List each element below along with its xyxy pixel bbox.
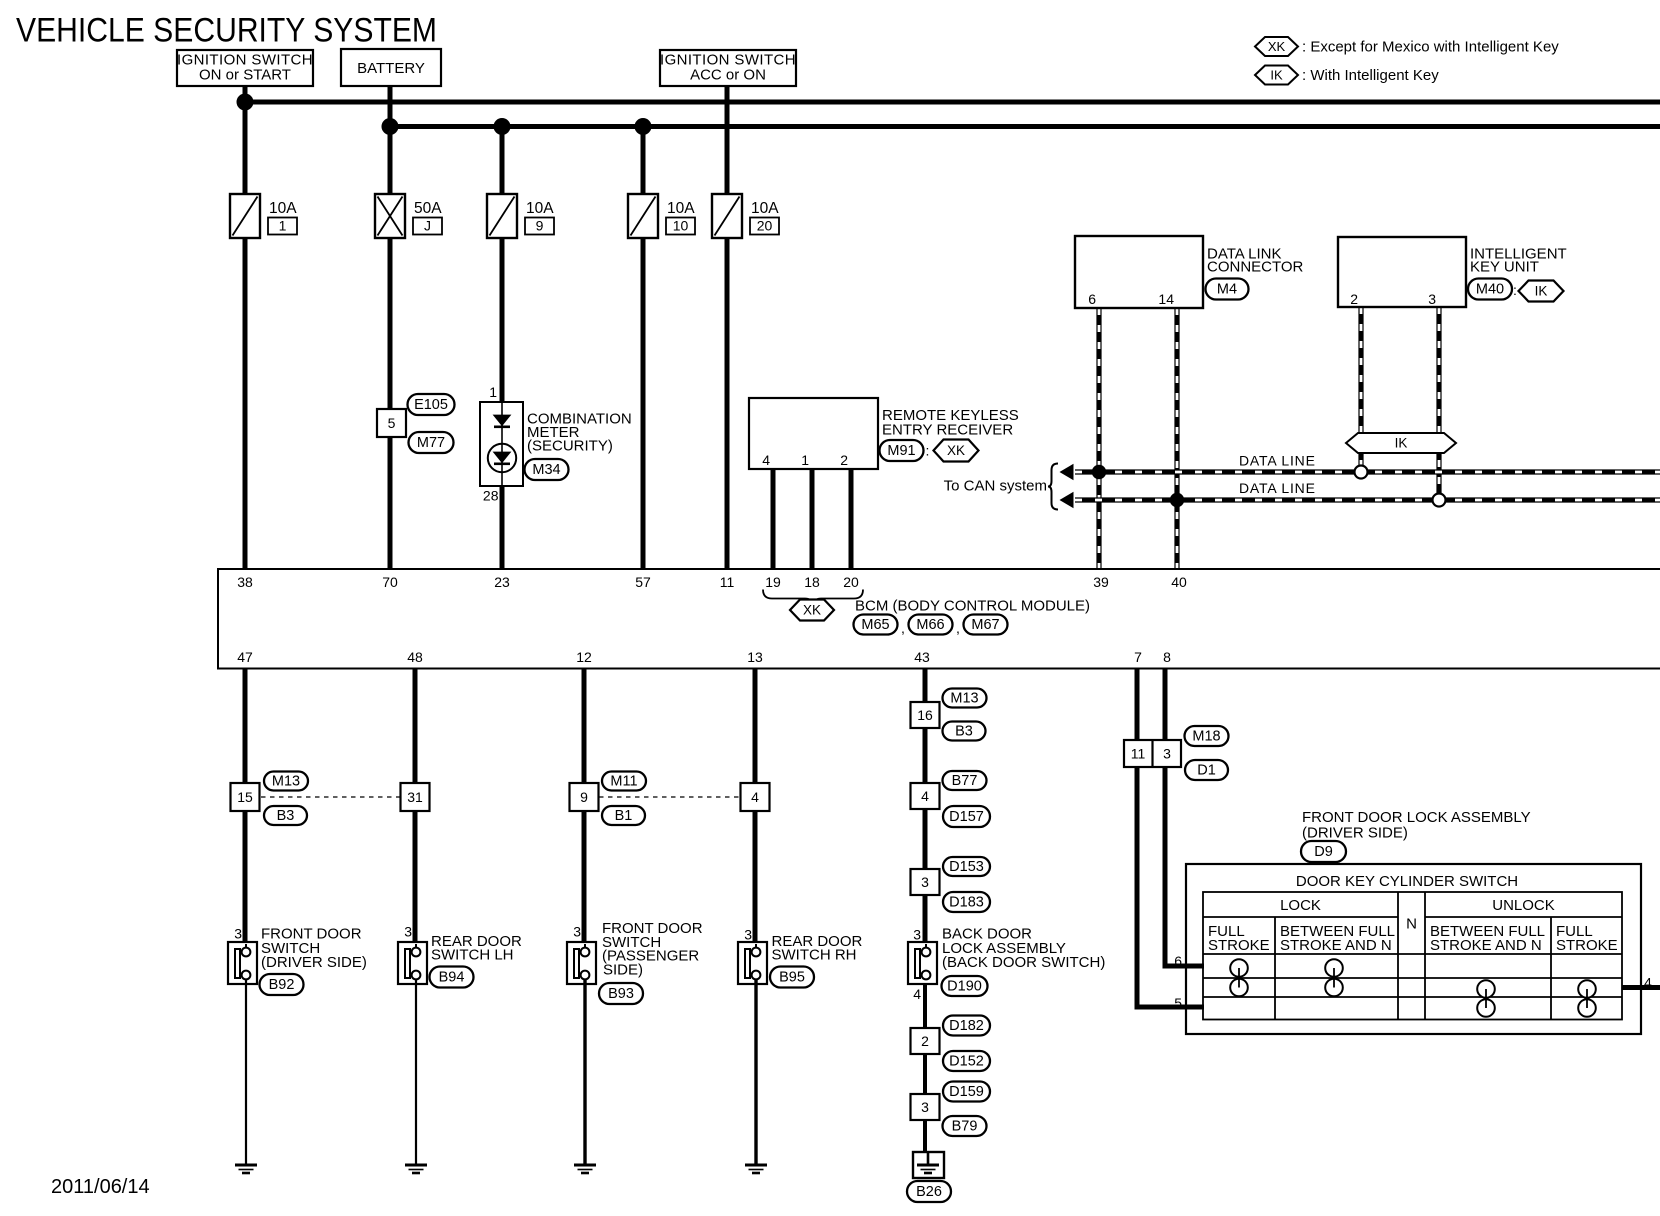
svg-text:DOOR KEY CYLINDER SWITCH: DOOR KEY CYLINDER SWITCH bbox=[1296, 873, 1518, 890]
svg-text:STROKE: STROKE bbox=[1208, 937, 1270, 954]
svg-text:2011/06/14: 2011/06/14 bbox=[51, 1176, 150, 1198]
svg-text:M13: M13 bbox=[950, 691, 978, 707]
svg-text:N: N bbox=[1406, 916, 1417, 933]
svg-text:FRONT DOOR LOCK ASSEMBLY: FRONT DOOR LOCK ASSEMBLY bbox=[1302, 809, 1531, 826]
svg-text:20: 20 bbox=[843, 574, 859, 590]
svg-text:7: 7 bbox=[1134, 649, 1142, 665]
svg-text:28: 28 bbox=[483, 488, 499, 504]
svg-text:D153: D153 bbox=[949, 859, 984, 875]
svg-text:1: 1 bbox=[489, 384, 497, 400]
svg-text:11: 11 bbox=[1131, 746, 1146, 762]
svg-text:48: 48 bbox=[407, 649, 423, 665]
svg-text:8: 8 bbox=[1163, 649, 1171, 665]
svg-text:40: 40 bbox=[1171, 574, 1187, 590]
svg-text:4: 4 bbox=[751, 789, 759, 805]
svg-text:M11: M11 bbox=[610, 774, 637, 790]
svg-text:5: 5 bbox=[1174, 995, 1182, 1011]
svg-text:B3: B3 bbox=[277, 808, 295, 824]
svg-text:B26: B26 bbox=[916, 1184, 942, 1200]
svg-text:XK: XK bbox=[803, 603, 821, 618]
svg-text:10A: 10A bbox=[526, 200, 554, 217]
svg-text:6: 6 bbox=[1088, 291, 1096, 307]
svg-text:M66: M66 bbox=[916, 617, 944, 633]
svg-text:BCM (BODY CONTROL MODULE): BCM (BODY CONTROL MODULE) bbox=[855, 598, 1090, 615]
svg-text:10A: 10A bbox=[269, 200, 297, 217]
svg-text:IK: IK bbox=[1535, 284, 1548, 299]
svg-text:38: 38 bbox=[237, 574, 253, 590]
svg-text::: : bbox=[926, 443, 930, 459]
svg-text:15: 15 bbox=[237, 789, 253, 805]
svg-text:47: 47 bbox=[237, 649, 253, 665]
svg-text:: Except for Mexico with Intel: : Except for Mexico with Intelligent Key bbox=[1302, 39, 1559, 56]
svg-text:M13: M13 bbox=[272, 774, 300, 790]
svg-text:,: , bbox=[956, 620, 960, 636]
svg-text:M65: M65 bbox=[861, 617, 889, 633]
svg-text:UNLOCK: UNLOCK bbox=[1492, 897, 1555, 914]
svg-text:3: 3 bbox=[234, 926, 242, 942]
svg-text:To CAN system: To CAN system bbox=[944, 478, 1047, 495]
svg-text:12: 12 bbox=[576, 649, 592, 665]
svg-text:3: 3 bbox=[921, 874, 929, 890]
svg-text:E105: E105 bbox=[414, 397, 448, 413]
svg-text:1: 1 bbox=[801, 452, 809, 468]
svg-text:6: 6 bbox=[1174, 953, 1182, 969]
svg-text:STROKE AND N: STROKE AND N bbox=[1280, 937, 1392, 954]
svg-text:31: 31 bbox=[407, 789, 423, 805]
svg-text:19: 19 bbox=[765, 574, 781, 590]
svg-text:LOCK: LOCK bbox=[1280, 897, 1321, 914]
svg-text:B93: B93 bbox=[608, 986, 634, 1002]
svg-text:B1: B1 bbox=[615, 808, 633, 824]
svg-text:M18: M18 bbox=[1192, 729, 1220, 745]
svg-text:D183: D183 bbox=[949, 895, 984, 911]
svg-text:(BACK DOOR SWITCH): (BACK DOOR SWITCH) bbox=[942, 954, 1105, 971]
svg-text:B79: B79 bbox=[952, 1119, 978, 1135]
svg-text:B95: B95 bbox=[779, 970, 805, 986]
svg-text:B3: B3 bbox=[955, 724, 973, 740]
svg-text:M67: M67 bbox=[971, 617, 999, 633]
svg-text:(SECURITY): (SECURITY) bbox=[527, 438, 613, 455]
svg-text:10: 10 bbox=[673, 218, 689, 234]
svg-text:M34: M34 bbox=[532, 462, 560, 478]
svg-text:STROKE: STROKE bbox=[1556, 937, 1618, 954]
svg-text:B94: B94 bbox=[439, 970, 465, 986]
svg-text:M4: M4 bbox=[1217, 282, 1237, 298]
svg-text:3: 3 bbox=[744, 927, 752, 943]
svg-text:IK: IK bbox=[1395, 436, 1408, 451]
svg-text:KEY UNIT: KEY UNIT bbox=[1470, 259, 1539, 276]
svg-text:D157: D157 bbox=[949, 809, 984, 825]
svg-text:ENTRY RECEIVER: ENTRY RECEIVER bbox=[882, 422, 1013, 439]
svg-text:43: 43 bbox=[914, 649, 930, 665]
svg-text:D1: D1 bbox=[1197, 763, 1216, 779]
svg-text:50A: 50A bbox=[414, 200, 442, 217]
svg-text:M91: M91 bbox=[887, 443, 915, 459]
svg-text:B77: B77 bbox=[952, 773, 978, 789]
svg-text:18: 18 bbox=[804, 574, 820, 590]
svg-text:: With Intelligent Key: : With Intelligent Key bbox=[1302, 67, 1439, 84]
svg-text:3: 3 bbox=[404, 924, 412, 940]
svg-text:4: 4 bbox=[762, 452, 770, 468]
svg-text:70: 70 bbox=[382, 574, 398, 590]
svg-text:23: 23 bbox=[494, 574, 510, 590]
svg-text:XK: XK bbox=[1268, 39, 1286, 54]
svg-text:3: 3 bbox=[1428, 291, 1436, 307]
svg-text:39: 39 bbox=[1093, 574, 1109, 590]
svg-text:J: J bbox=[424, 218, 431, 234]
svg-text:M77: M77 bbox=[417, 435, 445, 451]
svg-text:D159: D159 bbox=[949, 1084, 984, 1100]
svg-text:D152: D152 bbox=[949, 1054, 984, 1070]
svg-text:16: 16 bbox=[917, 707, 933, 723]
svg-text:BATTERY: BATTERY bbox=[357, 60, 425, 77]
svg-text:4: 4 bbox=[921, 788, 929, 804]
svg-text:(DRIVER SIDE): (DRIVER SIDE) bbox=[1302, 825, 1408, 842]
svg-text:10A: 10A bbox=[667, 200, 695, 217]
svg-text:IK: IK bbox=[1270, 68, 1283, 83]
svg-text:STROKE AND N: STROKE AND N bbox=[1430, 937, 1542, 954]
svg-text:SWITCH LH: SWITCH LH bbox=[431, 947, 514, 964]
svg-text:9: 9 bbox=[536, 218, 544, 234]
svg-text:(DRIVER SIDE): (DRIVER SIDE) bbox=[261, 954, 367, 971]
svg-text:20: 20 bbox=[757, 218, 773, 234]
svg-text:10A: 10A bbox=[751, 200, 779, 217]
svg-text:M40: M40 bbox=[1476, 282, 1504, 298]
svg-text:14: 14 bbox=[1158, 291, 1174, 307]
svg-text:2: 2 bbox=[921, 1033, 929, 1049]
svg-text:ACC or ON: ACC or ON bbox=[690, 67, 766, 84]
svg-text:3: 3 bbox=[1163, 746, 1171, 762]
svg-text:D182: D182 bbox=[949, 1018, 984, 1034]
svg-text:ON or START: ON or START bbox=[199, 67, 291, 84]
svg-text:D9: D9 bbox=[1314, 844, 1333, 860]
svg-text:,: , bbox=[901, 620, 905, 636]
svg-text:SIDE): SIDE) bbox=[603, 962, 643, 979]
svg-text:SWITCH RH: SWITCH RH bbox=[772, 947, 857, 964]
svg-text:CONNECTOR: CONNECTOR bbox=[1207, 259, 1304, 276]
svg-text:B92: B92 bbox=[269, 977, 295, 993]
svg-text:3: 3 bbox=[573, 924, 581, 940]
svg-text:5: 5 bbox=[388, 415, 396, 431]
svg-text:13: 13 bbox=[747, 649, 763, 665]
svg-text:9: 9 bbox=[580, 789, 588, 805]
svg-text:3: 3 bbox=[921, 1099, 929, 1115]
svg-text:DATA LINE: DATA LINE bbox=[1239, 480, 1316, 496]
svg-text:D190: D190 bbox=[947, 979, 982, 995]
svg-text:4: 4 bbox=[913, 986, 921, 1002]
svg-text:3: 3 bbox=[913, 927, 921, 943]
svg-text:2: 2 bbox=[1350, 291, 1358, 307]
svg-text:XK: XK bbox=[947, 443, 965, 458]
svg-text:VEHICLE SECURITY SYSTEM: VEHICLE SECURITY SYSTEM bbox=[16, 12, 437, 50]
svg-text:1: 1 bbox=[279, 218, 287, 234]
svg-text:11: 11 bbox=[720, 574, 735, 590]
svg-text:DATA LINE: DATA LINE bbox=[1239, 453, 1316, 469]
svg-text:57: 57 bbox=[635, 574, 651, 590]
svg-text::: : bbox=[1513, 282, 1517, 298]
svg-text:2: 2 bbox=[840, 452, 848, 468]
